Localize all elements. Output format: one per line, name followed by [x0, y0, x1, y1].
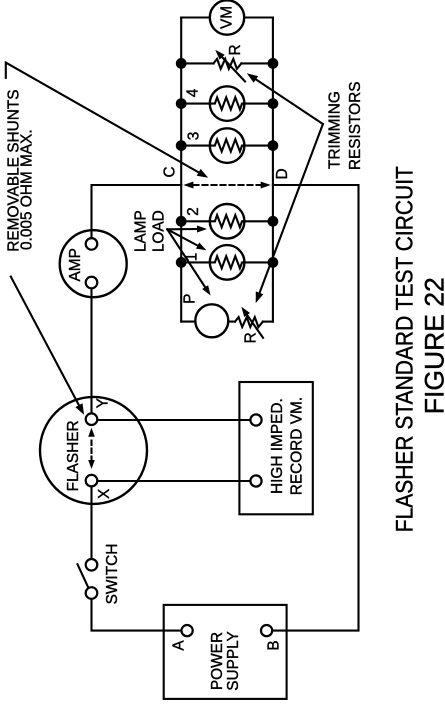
svg-text:0.005 OHM MAX.: 0.005 OHM MAX. [19, 129, 36, 250]
svg-text:Y: Y [95, 398, 112, 408]
label HIGH IMPED. RECORD VM. [269, 397, 306, 495]
svg-text:RECORD VM.: RECORD VM. [289, 397, 306, 495]
svg-text:HIGH IMPED.: HIGH IMPED. [269, 398, 286, 494]
junction dots lamp 3 [176, 140, 187, 151]
switch terminal right [86, 559, 98, 571]
svg-text:SUPPLY: SUPPLY [225, 631, 242, 691]
svg-text:A: A [171, 640, 188, 651]
label REMOVABLE SHUNTS 0.005 OHM MAX. [5, 89, 35, 251]
svg-text:SWITCH: SWITCH [104, 544, 121, 605]
junction dots lamp 2 [176, 216, 187, 227]
svg-text:LAMP: LAMP [132, 210, 149, 252]
wire from terminal B down, right, up to node D [272, 185, 359, 631]
arrow from lamp load label to lamp 1 [167, 229, 206, 250]
leader arrow from trimming resistors label to R1 [247, 73, 323, 124]
bottom rail of lamp bank [272, 18, 274, 322]
lamp 1 branch [181, 245, 273, 280]
high impedance recording voltmeter box [239, 382, 312, 514]
label POWER SUPPLY [209, 631, 242, 691]
svg-text:3: 3 [186, 132, 203, 141]
flasher terminal Y [86, 413, 98, 425]
svg-text:FLASHER STANDARD TEST CIRCUIT: FLASHER STANDARD TEST CIRCUIT [391, 166, 418, 532]
flasher circle U1 [40, 397, 147, 504]
svg-text:AMP: AMP [67, 248, 84, 281]
leader arrow from removable shunts to flasher terminal Y [11, 277, 84, 415]
svg-text:4: 4 [185, 88, 202, 97]
svg-text:FIGURE 22: FIGURE 22 [419, 277, 445, 414]
wire flasher terminal Y to amp [90, 289, 92, 414]
amp terminal right [86, 238, 98, 250]
wire switch to flasher terminal X [90, 487, 92, 559]
power supply box [164, 605, 287, 699]
svg-text:X: X [96, 489, 113, 499]
flasher terminal X [86, 475, 98, 487]
leader arrow from removable shunts to dashed line C-D [6, 63, 208, 178]
svg-text:2: 2 [185, 207, 202, 216]
svg-text:RESISTORS: RESISTORS [347, 81, 364, 170]
amp meter circle [60, 230, 127, 297]
label LAMP LOAD [132, 210, 167, 252]
recording voltmeter terminal from Y [250, 414, 261, 425]
voltmeter VM branch [181, 0, 273, 34]
svg-text:B: B [265, 640, 282, 650]
removable shunt dashed line between C and D [183, 182, 270, 189]
amp terminal left [86, 277, 98, 289]
power supply terminal A [182, 625, 193, 636]
dashed arrow between X and Y [88, 428, 95, 469]
svg-text:P: P [182, 294, 199, 304]
arrow from lamp load label to lamp 2 [167, 226, 207, 233]
wire amp to node C on top rail [92, 185, 182, 238]
svg-text:C: C [162, 166, 179, 177]
arrow from lamp load label to pilot lamp P [167, 229, 210, 295]
wire flasher Y down to recording voltmeter [98, 419, 251, 421]
junction dots R1 branch [176, 58, 187, 69]
svg-text:TRIMMING: TRIMMING [326, 91, 343, 169]
recording voltmeter terminal from X [250, 475, 261, 486]
lamp 4 branch [181, 86, 273, 121]
label TRIMMING RESISTORS [326, 81, 364, 170]
wire from terminal A up and right to switch [92, 599, 183, 631]
svg-text:FLASHER: FLASHER [65, 420, 82, 491]
svg-text:POWER: POWER [209, 632, 226, 690]
switch terminal left [86, 587, 98, 599]
leader arrow from trimming resistors label to R2 [256, 124, 323, 303]
svg-text:VM: VM [219, 6, 236, 29]
lamp 2 branch [181, 204, 273, 239]
svg-text:R: R [242, 332, 259, 343]
pilot lamp P and trimming resistor R2 branch [181, 304, 273, 338]
junction dots lamp 4 [176, 98, 187, 109]
power supply terminal B [261, 625, 272, 636]
lamp 3 branch [181, 128, 273, 163]
svg-text:R: R [227, 44, 244, 55]
svg-text:LOAD: LOAD [150, 210, 167, 252]
switch blade [78, 564, 89, 587]
top rail of lamp bank [180, 18, 182, 322]
junction dots lamp 1 [176, 257, 187, 268]
trimming resistor R1 branch [181, 50, 273, 82]
svg-text:D: D [274, 168, 291, 179]
wire flasher X down to recording voltmeter [98, 480, 251, 482]
